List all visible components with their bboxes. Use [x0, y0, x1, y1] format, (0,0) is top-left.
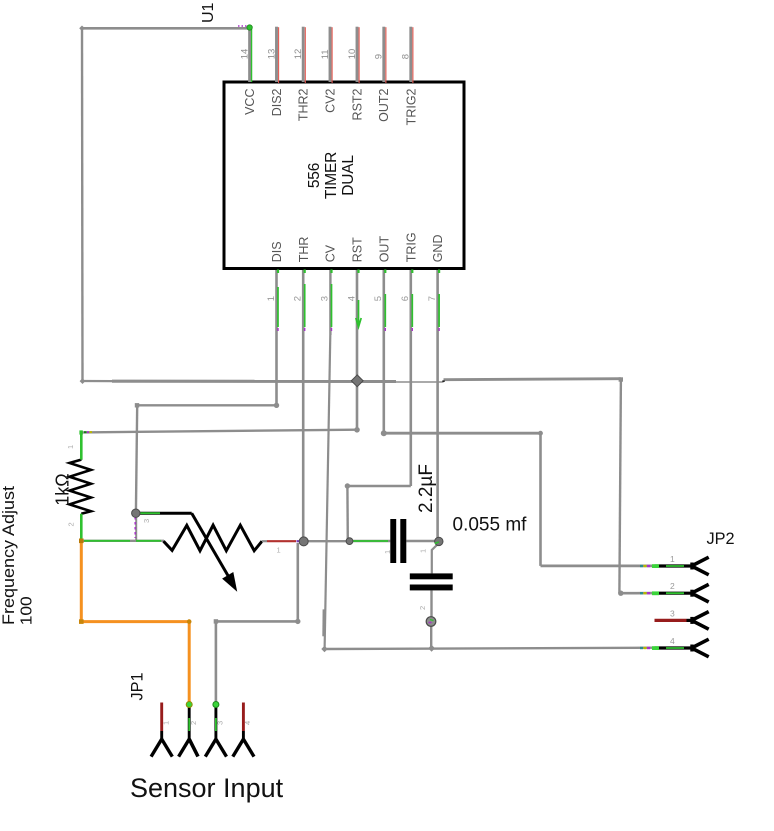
wire resistor bottom row to pot left [81, 514, 164, 541]
pin 10 RST2 [347, 27, 365, 121]
svg-text:2.2µF: 2.2µF [416, 464, 437, 513]
junction JP1 wire corner right [295, 619, 300, 624]
svg-text:2: 2 [189, 721, 198, 725]
green tick resistor top corner [79, 430, 92, 434]
junction orange corner bottom [79, 619, 84, 624]
junction pot right THR node [299, 537, 308, 546]
wire RST pin4 down [356, 270, 359, 430]
wire cap C2 bottom lead [430, 590, 433, 648]
junction trig node [346, 538, 353, 545]
junction VCC JP2 corner [618, 591, 623, 596]
green highlight resistor row [84, 540, 161, 542]
IC U1 body [224, 82, 464, 269]
svg-text:9: 9 [374, 54, 385, 59]
label 1k ohm [53, 473, 73, 505]
pin 6 TRIG [400, 232, 418, 331]
wire THR pin2 down to pot right [302, 270, 305, 541]
svg-text:JP1: JP1 [129, 672, 147, 700]
svg-text:12: 12 [293, 49, 304, 60]
svg-text:1: 1 [383, 550, 392, 554]
svg-text:3: 3 [216, 721, 225, 725]
svg-text:1: 1 [66, 445, 75, 449]
purple dash DIS net [134, 517, 136, 538]
cap C2 pin marks [418, 549, 428, 610]
junction DIS wiper node [132, 509, 140, 517]
svg-text:3: 3 [142, 519, 151, 523]
wire VCC left vertical [81, 28, 84, 381]
svg-text:CV: CV [324, 244, 338, 262]
svg-text:TRIG2: TRIG2 [404, 88, 418, 125]
label 0.055 mf [453, 515, 528, 536]
svg-text:DIS: DIS [270, 241, 284, 262]
wire resistor top to RST [81, 430, 357, 460]
connector JP1 pin 3 [205, 702, 226, 757]
potentiometer [139, 513, 300, 592]
svg-text:2: 2 [67, 522, 76, 526]
connector JP1 pin 2 [179, 702, 198, 757]
svg-text:2: 2 [418, 606, 427, 610]
wire bottom rail to JP2 pin4 [325, 648, 655, 649]
label JP2 [707, 530, 735, 548]
junction DIS corner [135, 403, 139, 407]
svg-text:13: 13 [266, 49, 277, 60]
pin 14 VCC [238, 25, 257, 115]
svg-text:11: 11 [320, 49, 331, 59]
connector JP2 pin 1 [640, 554, 709, 575]
capacitor C2 0.055mf [410, 573, 453, 590]
svg-text:6: 6 [400, 296, 411, 301]
svg-text:VCC: VCC [243, 89, 257, 115]
wire pot right to trig node [304, 540, 350, 542]
svg-text:5: 5 [373, 296, 384, 301]
junction C2 bottom rail diamond [428, 645, 435, 652]
junction TRIG corner dot [345, 483, 350, 488]
svg-text:1: 1 [266, 296, 277, 301]
resistor R1 1k [66, 431, 91, 540]
wire THR node to JP1 pin3 [216, 543, 298, 703]
connector JP2 pin 3 unconnected [655, 608, 709, 629]
junction VCC top corner [79, 26, 85, 32]
svg-text:TRIG: TRIG [404, 232, 418, 262]
pin 9 OUT2 [374, 27, 392, 122]
svg-text:TIMER: TIMER [323, 152, 340, 199]
wire GND pin7 down to cap junction [436, 270, 439, 541]
svg-text:100: 100 [19, 596, 36, 625]
pin 12 THR2 [293, 27, 311, 121]
svg-text:1: 1 [162, 721, 171, 725]
label JP1 [129, 672, 147, 700]
svg-text:3: 3 [319, 296, 330, 301]
junction orange corner top [79, 539, 84, 544]
wire cap C1 right lead [406, 540, 437, 542]
svg-text:OUT: OUT [377, 236, 391, 263]
wire VCC right vertical to JP2 pin2 [619, 379, 655, 593]
svg-text:U1: U1 [200, 2, 217, 23]
svg-text:7: 7 [427, 296, 438, 301]
svg-text:14: 14 [239, 49, 250, 60]
svg-text:THR2: THR2 [297, 88, 311, 121]
svg-text:Sensor Input: Sensor Input [130, 773, 284, 803]
connector JP2 pin 4 [640, 636, 709, 657]
connector JP1 pin 4 unconnected [233, 703, 254, 757]
wire cap C1 left lead [350, 540, 391, 542]
label 2.2uF [416, 464, 437, 513]
pin 11 CV2 [320, 27, 338, 113]
IC U1 part text 556 TIMER DUAL [306, 152, 357, 199]
wire CV pin3 down to bottom rail [324, 270, 331, 649]
junction OUT JP2 corner [538, 431, 543, 436]
wire cap C2 top lead [432, 544, 439, 574]
svg-text:OUT2: OUT2 [377, 88, 391, 121]
pin 1 DIS [266, 241, 284, 331]
svg-text:RST2: RST2 [350, 88, 364, 120]
svg-text:1: 1 [419, 549, 428, 553]
junction VCC RST diamond [351, 375, 363, 387]
svg-text:0.055 mf: 0.055 mf [453, 515, 528, 536]
svg-text:DIS2: DIS2 [270, 88, 284, 116]
label Frequency Adjust 100 [0, 485, 36, 625]
wire OUT pin5 down [384, 270, 655, 566]
svg-text:Frequency Adjust: Frequency Adjust [0, 485, 18, 625]
svg-text:556: 556 [306, 163, 323, 188]
green highlight wiper lead [139, 512, 160, 514]
svg-text:1kΩ: 1kΩ [53, 473, 73, 505]
svg-text:DUAL: DUAL [340, 155, 357, 196]
svg-text:1: 1 [277, 546, 281, 555]
pin 7 GND [427, 235, 445, 331]
junction VCC rail left corner [80, 378, 86, 384]
capacitor C1 2.2uF [390, 519, 406, 563]
label Sensor Input [130, 773, 284, 803]
pin 3 CV [319, 244, 337, 331]
junction OUT wire corner [381, 430, 387, 436]
wire VCC horizontal rail mid [82, 379, 621, 382]
svg-text:2: 2 [670, 581, 675, 591]
junction DIS pin end [274, 403, 279, 408]
cap C1 pin mark [383, 550, 392, 554]
junction cap C1 right GND node [435, 537, 443, 545]
junction CV bottom corner [321, 646, 327, 652]
connector JP2 pin 2 [640, 581, 709, 602]
svg-text:8: 8 [401, 54, 412, 59]
pin 5 OUT [373, 236, 391, 331]
wire DIS pin1 down [136, 270, 277, 541]
svg-text:4: 4 [346, 296, 357, 301]
svg-text:4: 4 [243, 721, 252, 725]
junction cap C2 bottom pad [426, 617, 436, 627]
svg-text:2: 2 [293, 296, 304, 301]
wire TRIG pin6 down [347, 270, 410, 541]
junction orange corner mid [187, 619, 192, 624]
svg-text:CV2: CV2 [323, 88, 337, 112]
svg-text:10: 10 [347, 49, 358, 60]
pin 4 RST [346, 237, 364, 327]
svg-text:3: 3 [670, 608, 675, 618]
label U1 [200, 2, 217, 23]
svg-text:GND: GND [431, 235, 445, 263]
svg-text:RST: RST [351, 237, 365, 262]
svg-text:1: 1 [670, 554, 675, 564]
connector JP1 pin 1 unconnected [151, 703, 172, 757]
pin 13 DIS2 [266, 27, 284, 117]
wire orange to JP1 pin2 [81, 541, 189, 703]
pin 8 TRIG2 [401, 27, 419, 126]
junction RST wire end [354, 427, 360, 433]
pin 2 THR [293, 237, 311, 331]
svg-text:JP2: JP2 [707, 530, 735, 548]
junction JP1 wire corner left [214, 619, 218, 623]
wire VCC rail top (pin14 to left) [82, 27, 250, 30]
svg-text:THR: THR [297, 237, 311, 263]
svg-text:4: 4 [670, 636, 675, 646]
junction VCC right corner [619, 377, 623, 381]
green highlight cap C1 left lead [351, 540, 388, 542]
